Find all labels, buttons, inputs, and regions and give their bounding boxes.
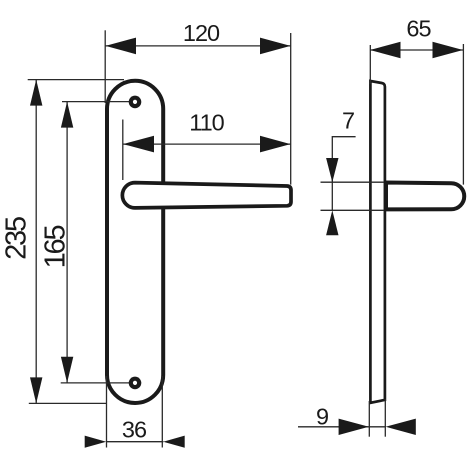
svg-text:36: 36 xyxy=(122,417,147,443)
svg-text:120: 120 xyxy=(183,20,220,46)
svg-text:65: 65 xyxy=(406,16,431,42)
svg-text:235: 235 xyxy=(0,217,32,260)
svg-text:110: 110 xyxy=(189,109,224,135)
svg-text:9: 9 xyxy=(316,403,328,429)
svg-text:165: 165 xyxy=(40,226,72,269)
svg-text:7: 7 xyxy=(342,107,354,133)
